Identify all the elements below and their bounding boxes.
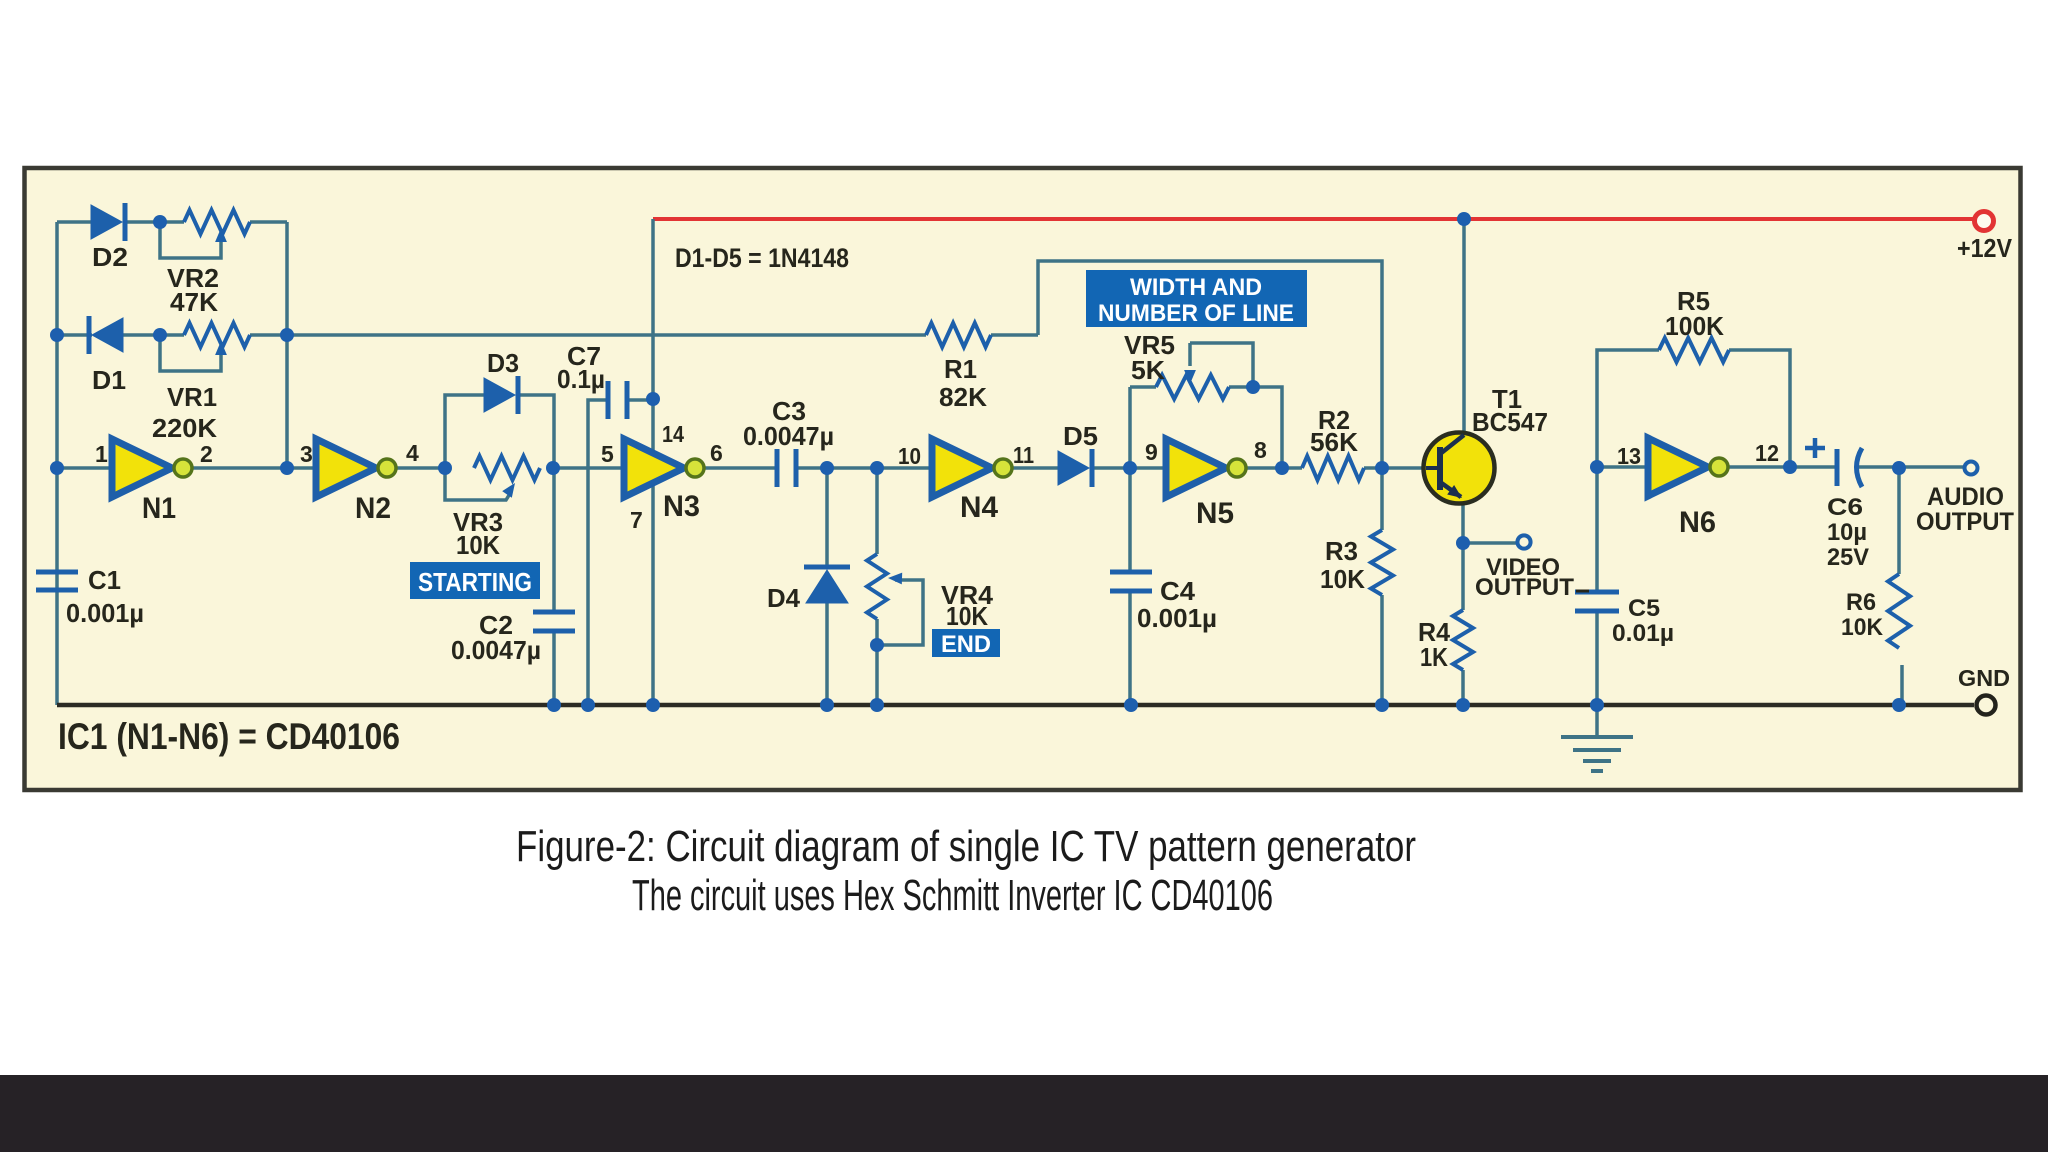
resistor VR2 47K (184, 210, 250, 234)
terminal GND (1977, 696, 1996, 715)
capacitor C1 0.001u (36, 570, 78, 575)
wire C7 right lead (627, 398, 653, 402)
wire C4 branch (1128, 468, 1132, 572)
svg-text:C1: C1 (88, 565, 121, 595)
inverter N6 (1648, 438, 1708, 496)
svg-text:C6: C6 (1827, 494, 1863, 521)
wire R6 branch (1897, 467, 1901, 574)
svg-text:2: 2 (200, 441, 213, 467)
wire +12V rail (653, 217, 1973, 221)
wire R5 feedback loop (1597, 350, 1659, 467)
svg-text:D1: D1 (92, 365, 126, 395)
svg-text:WIDTH AND: WIDTH AND (1130, 274, 1262, 301)
wire D1 row (57, 333, 92, 337)
capacitor C2 0.0047u (533, 610, 575, 615)
wire R3 branch (1380, 468, 1384, 530)
capacitor C5 0.01u (1575, 590, 1619, 595)
terminal +12V (1975, 212, 1994, 231)
svg-text:10K: 10K (946, 601, 988, 631)
wire R2 to T1 base (1364, 466, 1438, 470)
wire left rail (55, 222, 59, 705)
capacitor C6 10u polarized (1835, 449, 1840, 486)
svg-text:AUDIO: AUDIO (1927, 483, 2004, 511)
resistor R3 10K (1371, 530, 1393, 595)
svg-text:1: 1 (95, 441, 108, 467)
svg-text:7: 7 (630, 507, 643, 533)
svg-text:BC547: BC547 (1472, 407, 1548, 437)
svg-text:R3: R3 (1325, 536, 1358, 566)
svg-text:STARTING: STARTING (418, 567, 532, 597)
wire N3 pin7 to gnd (651, 486, 655, 705)
svg-text:10K: 10K (456, 530, 500, 560)
wire VR5 wiper loop (1190, 343, 1253, 387)
svg-text:N4: N4 (960, 491, 998, 524)
svg-text:OUTPUT: OUTPUT (1916, 508, 2014, 536)
svg-text:10K: 10K (1320, 564, 1365, 594)
wire C2 branch down (552, 468, 556, 612)
svg-text:VR1: VR1 (167, 382, 217, 412)
svg-text:0.0047µ: 0.0047µ (743, 421, 834, 451)
terminal video output (1517, 535, 1530, 548)
svg-text:END: END (941, 631, 991, 658)
diode D4 (804, 565, 850, 570)
box WIDTH AND NUMBER OF LINE (1086, 270, 1307, 327)
capacitor C4 0.001u (1110, 570, 1152, 575)
svg-text:0.001µ: 0.001µ (66, 598, 144, 628)
wire D3 branch (445, 395, 484, 468)
wire gnd bus (57, 703, 1974, 708)
svg-text:N1: N1 (142, 492, 176, 525)
wire N1 input (57, 466, 112, 470)
wire D4 branch (825, 468, 829, 567)
bottom dark bar (0, 1075, 2048, 1152)
diode D5 (1058, 451, 1089, 485)
svg-text:12: 12 (1755, 440, 1779, 466)
svg-text:3: 3 (300, 441, 313, 467)
svg-text:5K: 5K (1131, 355, 1165, 385)
wire VR5 right side (1229, 387, 1282, 468)
svg-text:N5: N5 (1196, 497, 1234, 530)
svg-text:D4: D4 (767, 583, 801, 613)
svg-text:100K: 100K (1665, 311, 1724, 341)
resistor R6 10K (1888, 574, 1910, 648)
resistor R4 1K (1453, 610, 1473, 670)
box END (932, 629, 1000, 657)
svg-text:1K: 1K (1420, 642, 1448, 672)
inverter N4 (932, 439, 992, 497)
wire N1 out to N2 (184, 466, 316, 470)
svg-text:10µ: 10µ (1827, 519, 1867, 546)
svg-text:13: 13 (1617, 443, 1641, 469)
earth symbol (1595, 705, 1599, 737)
wire C6 to audio (1858, 465, 1964, 469)
svg-text:N3: N3 (663, 490, 700, 523)
wire T1 collector (1462, 219, 1466, 433)
capacitor C7 0.1u (606, 381, 611, 419)
svg-text:10K: 10K (1841, 614, 1884, 641)
wire VR3 node to N3 (553, 466, 624, 470)
wire T1 emitter down (1461, 496, 1465, 610)
wire VR4 wiper loop (877, 580, 923, 645)
wire N5 out to R2 (1247, 466, 1302, 470)
svg-text:R1: R1 (944, 354, 977, 384)
wire C3 to N4 (796, 466, 932, 470)
resistor VR5 5K (1156, 375, 1229, 399)
node dots (50, 328, 64, 342)
wire D2 row (57, 220, 91, 224)
svg-text:Figure-2: Circuit diagram of s: Figure-2: Circuit diagram of single IC T… (516, 822, 1416, 871)
svg-text:10: 10 (898, 443, 921, 469)
svg-text:+12V: +12V (1957, 233, 2013, 263)
svg-text:5: 5 (601, 441, 614, 467)
svg-text:0.01µ: 0.01µ (1612, 620, 1674, 647)
wire N6 out (1720, 465, 1835, 469)
svg-text:R6: R6 (1846, 589, 1876, 616)
transistor T1 BC547 (1424, 433, 1495, 504)
svg-text:D2: D2 (92, 242, 128, 272)
diode D3 (484, 378, 515, 412)
svg-text:0.0047µ: 0.0047µ (451, 635, 541, 665)
svg-text:D3: D3 (487, 348, 519, 378)
svg-text:8: 8 (1254, 437, 1267, 463)
capacitor C3 0.0047u (775, 449, 780, 487)
svg-text:The circuit uses Hex Schmitt I: The circuit uses Hex Schmitt Inverter IC… (632, 871, 1273, 920)
svg-text:GND: GND (1958, 665, 2010, 691)
svg-text:14: 14 (662, 421, 684, 447)
svg-text:6: 6 (710, 440, 723, 466)
resistor R2 56K (1302, 456, 1364, 480)
diode D1 (92, 318, 123, 352)
svg-text:OUTPUT: OUTPUT (1475, 574, 1574, 601)
wire VR2 wiper bracket (160, 222, 221, 258)
svg-text:0.001µ: 0.001µ (1137, 603, 1217, 633)
terminal audio output (1965, 462, 1978, 475)
wire R1 to top (991, 333, 1038, 337)
svg-text:4: 4 (406, 440, 419, 466)
wire N4 out to D5 (1004, 466, 1058, 470)
diode D2 (91, 205, 122, 239)
svg-text:25V: 25V (1827, 544, 1869, 571)
wire D5 to N5 (1094, 466, 1166, 470)
wire node13 to N6 (1597, 465, 1648, 469)
inverter N3 (624, 439, 684, 497)
wire VR1 wiper bracket (160, 335, 221, 371)
svg-text:9: 9 (1145, 439, 1158, 465)
svg-text:D5: D5 (1063, 421, 1098, 451)
svg-text:220K: 220K (152, 413, 217, 443)
svg-text:56K: 56K (1310, 427, 1358, 457)
resistor VR1 220K (184, 323, 250, 347)
wire N3 out to C3 (696, 466, 777, 470)
resistor R1 82K (926, 323, 991, 347)
wire VR5 left leg (1128, 387, 1132, 468)
inverter N1 (112, 439, 172, 497)
inverter N2 (316, 439, 376, 497)
wire VR3 wiper loop (445, 468, 511, 500)
resistor VR4 10K (867, 554, 887, 619)
wire N2 out to VR3 node (388, 466, 445, 470)
schematic panel (25, 168, 2021, 790)
svg-text:IC1 (N1-N6) = CD40106: IC1 (N1-N6) = CD40106 (58, 716, 400, 757)
wire +12V drop / N3 supply (651, 219, 655, 450)
svg-text:N2: N2 (355, 492, 391, 525)
wire video output stub (1463, 541, 1517, 545)
resistor R5 100K (1659, 338, 1729, 362)
wire C7 left lead down to gnd (588, 400, 608, 705)
box STARTING (410, 562, 540, 599)
wire node3 vertical (285, 222, 289, 468)
svg-text:47K: 47K (170, 287, 218, 317)
svg-text:C5: C5 (1628, 595, 1660, 622)
svg-text:0.1µ: 0.1µ (557, 364, 605, 394)
resistor VR3 10K (474, 456, 540, 480)
wire N6 input node / C5 (1595, 467, 1599, 592)
wire VR4 branch (875, 468, 879, 554)
svg-text:82K: 82K (939, 382, 987, 412)
svg-text:C4: C4 (1160, 576, 1196, 606)
svg-text:N6: N6 (1679, 506, 1716, 539)
inverter N5 (1166, 439, 1226, 497)
svg-text:NUMBER OF LINE: NUMBER OF LINE (1098, 300, 1294, 327)
svg-text:D1-D5 = 1N4148: D1-D5 = 1N4148 (675, 243, 849, 273)
svg-text:11: 11 (1013, 442, 1034, 468)
